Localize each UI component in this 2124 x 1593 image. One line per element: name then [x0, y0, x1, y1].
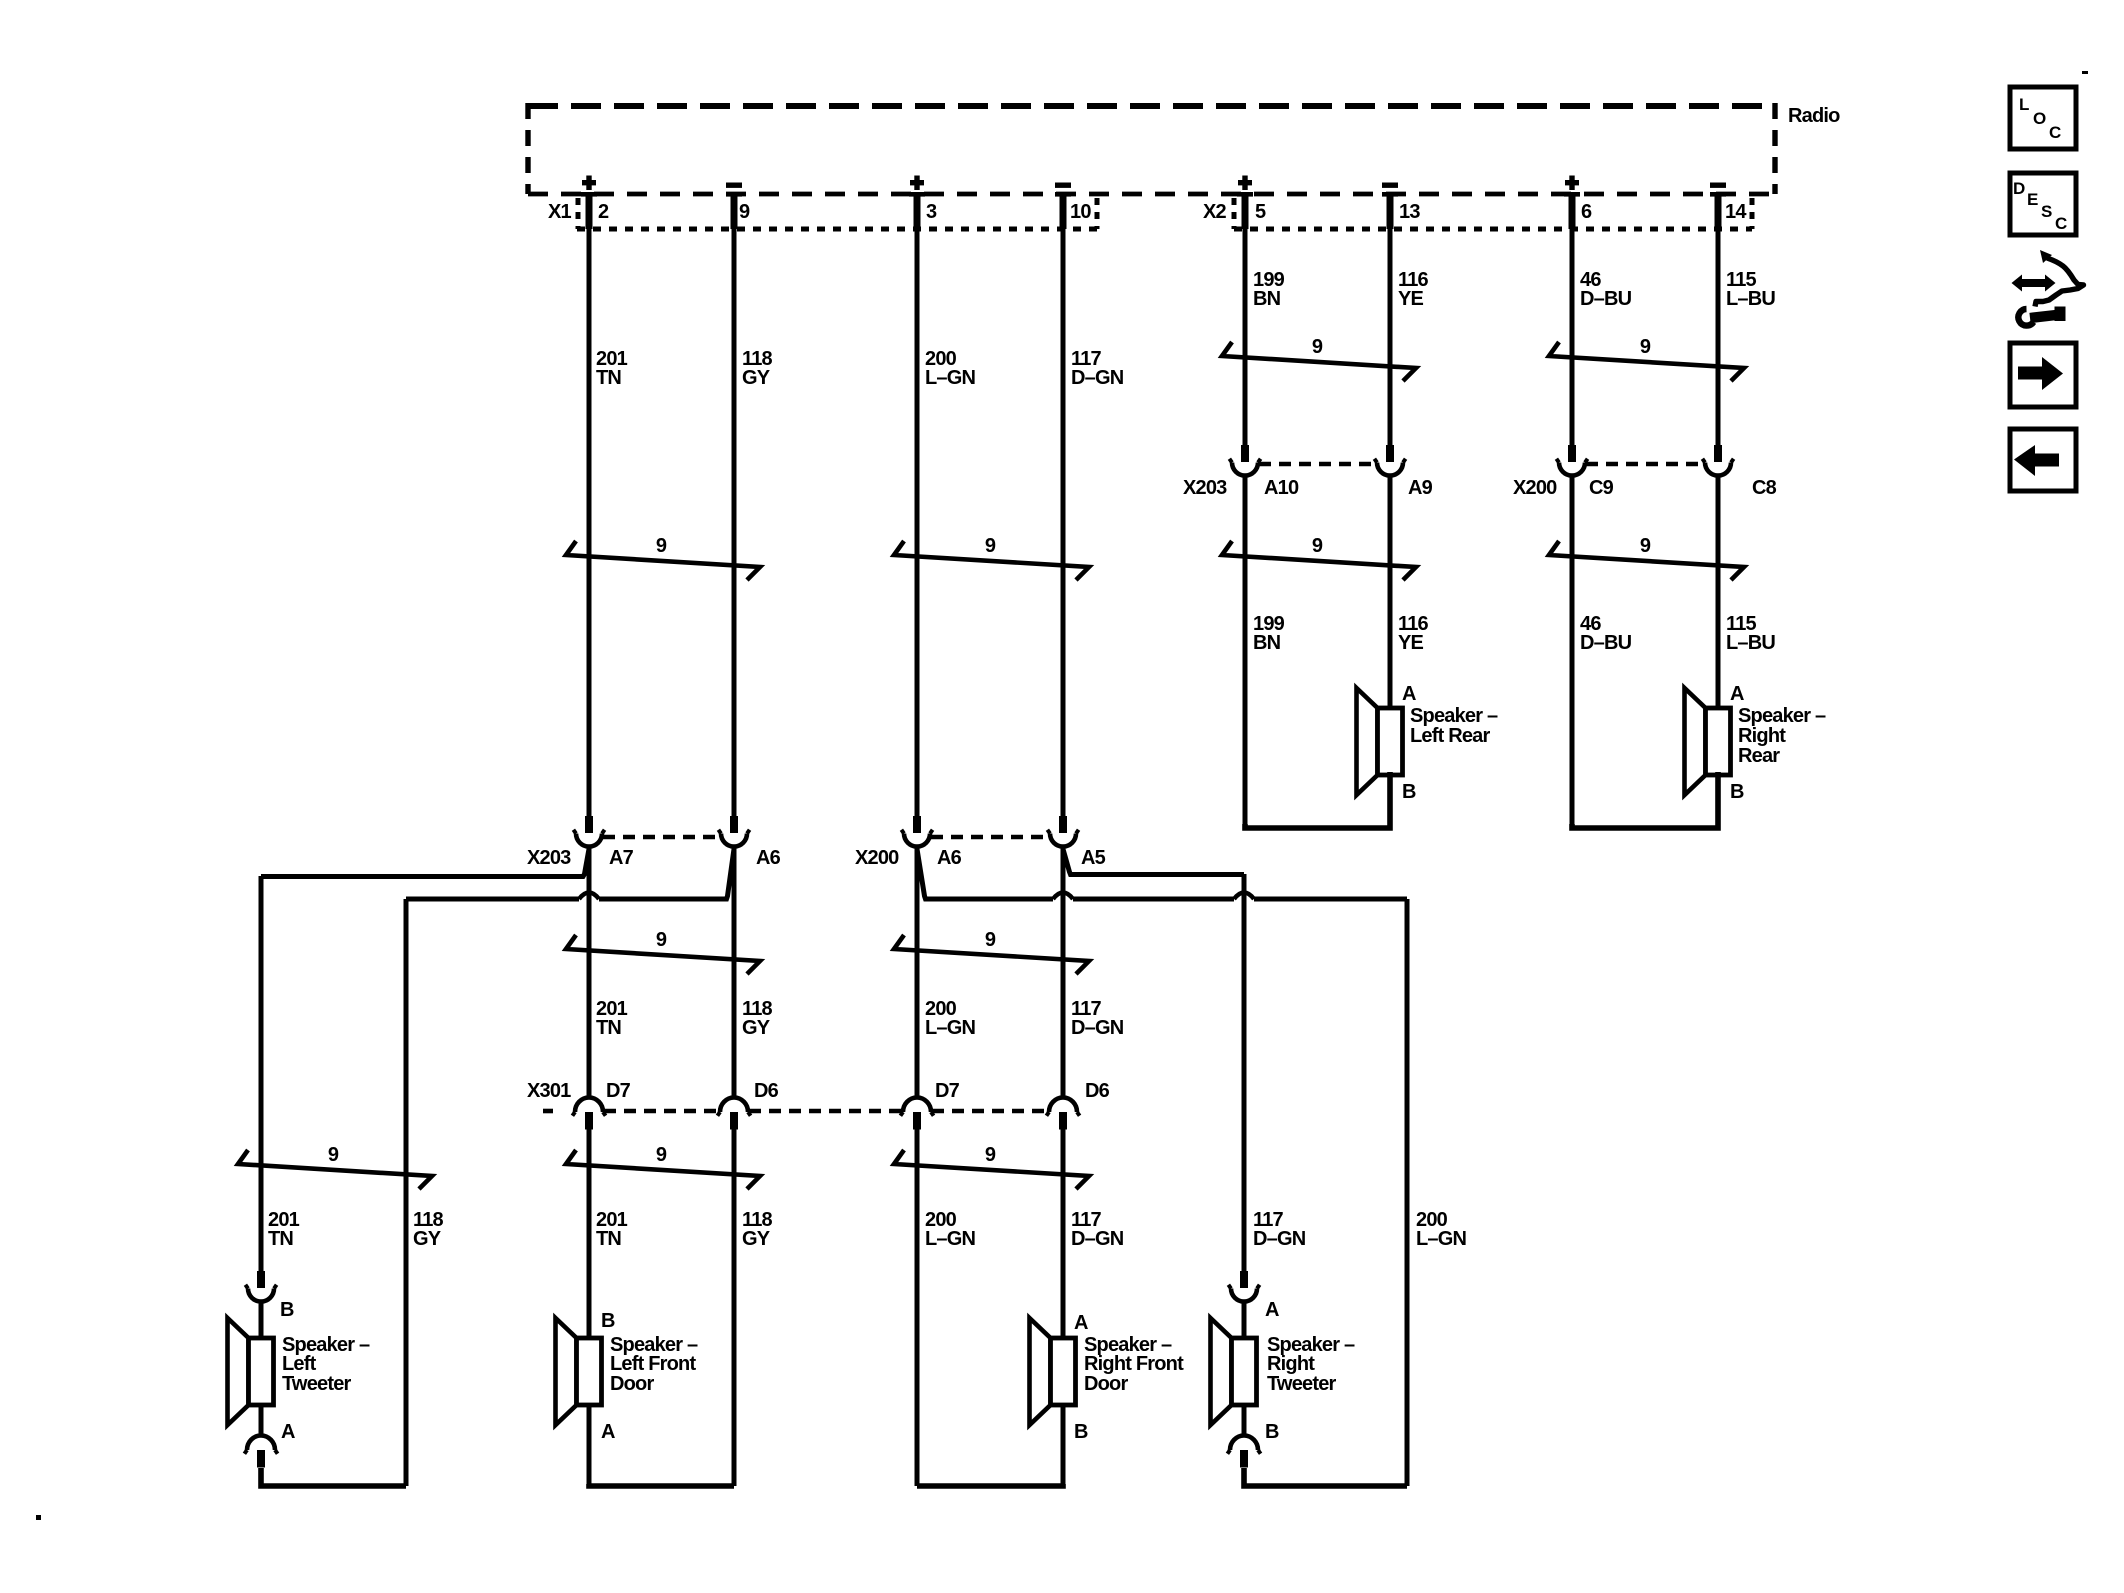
svg-text:D6: D6: [754, 1080, 779, 1102]
label X1: [548, 201, 572, 223]
wire label 115 L-BU (lower): [1726, 613, 1775, 654]
inline connector below right tweeter pin B: [1227, 1436, 1260, 1468]
svg-text:9: 9: [1312, 535, 1323, 557]
wire 117 D-GN col4 upper (pin 10 to X200 A5): [1061, 229, 1066, 816]
twisted pair marker 9 (cols 7-8 upper): [1549, 336, 1744, 381]
wire label 118 GY (upper): [742, 348, 773, 389]
label Speaker - Left Front Door: [610, 1334, 698, 1395]
wire left tweeter stub to box: [259, 1300, 264, 1338]
label A (right tweeter pin): [1265, 1299, 1279, 1321]
svg-text:9: 9: [1312, 336, 1323, 358]
wire 200 L-GN col3 lower: [915, 1129, 920, 1486]
svg-text:C: C: [2049, 123, 2061, 142]
svg-text:9: 9: [985, 1144, 996, 1166]
twisted pair marker 9 (cols 5-6 upper): [1222, 336, 1416, 381]
svg-text:L–GN: L–GN: [925, 1017, 975, 1039]
wire label 116 YE (lower): [1398, 613, 1429, 654]
wire label 118 GY left tweeter (bottom): [413, 1209, 444, 1250]
wire left tweeter return loop bottom: [261, 1468, 406, 1486]
radio module dashed box: [528, 103, 1775, 194]
svg-text:D–BU: D–BU: [1580, 288, 1632, 310]
svg-text:A6: A6: [756, 847, 781, 869]
connector X301 pin D7 right (inline socket): [900, 1098, 933, 1130]
svg-text:Speaker –: Speaker –: [1410, 705, 1498, 727]
svg-text:L: L: [2019, 95, 2029, 114]
label A (right front door pin): [1074, 1312, 1088, 1334]
svg-text:9: 9: [739, 201, 750, 223]
wire right tweeter stub to box: [1242, 1300, 1247, 1338]
svg-text:Left Rear: Left Rear: [1410, 725, 1491, 747]
svg-text:A10: A10: [1264, 477, 1299, 499]
radio pin 9 (minus): [726, 183, 750, 230]
svg-text:BN: BN: [1253, 632, 1281, 654]
svg-text:B: B: [280, 1299, 294, 1321]
svg-text:YE: YE: [1398, 632, 1424, 654]
label X301 D7 D6 D7 D6: [527, 1080, 1110, 1102]
svg-text:9: 9: [656, 1144, 667, 1166]
wire label 117 D-GN door (bottom): [1071, 1209, 1124, 1250]
radio pin 3 (plus): [909, 176, 937, 230]
connector X2 dotted strip: [1234, 198, 1752, 229]
svg-text:S: S: [2041, 202, 2052, 221]
svg-text:9: 9: [656, 535, 667, 557]
svg-text:X200: X200: [1513, 477, 1557, 499]
label Speaker - Right Tweeter: [1267, 1334, 1355, 1395]
twisted pair marker 9 (cols 7-8 mid): [1549, 535, 1744, 580]
svg-text:D: D: [2013, 179, 2025, 198]
svg-text:TN: TN: [596, 1228, 621, 1250]
svg-text:X203: X203: [1183, 477, 1227, 499]
connector X200 pin C8 (inline plug): [1702, 445, 1733, 476]
svg-text:A: A: [281, 1421, 295, 1443]
wire label 200 L-GN (upper): [925, 348, 975, 389]
connector X203 pin A6 (inline plug): [718, 816, 749, 847]
svg-text:B: B: [1265, 1421, 1279, 1443]
svg-text:Tweeter: Tweeter: [282, 1373, 352, 1395]
wire left tweeter box to connector: [259, 1405, 264, 1437]
label B (right tweeter pin): [1265, 1421, 1279, 1443]
svg-text:2: 2: [598, 201, 609, 223]
label B (left tweeter pin): [280, 1299, 294, 1321]
svg-text:A7: A7: [609, 847, 634, 869]
svg-text:BN: BN: [1253, 288, 1281, 310]
wire branch 117 D-GN to right tweeter (horizontal): [1063, 849, 1244, 875]
svg-text:9: 9: [985, 929, 996, 951]
label B (right rear speaker pin): [1730, 781, 1744, 803]
wire 46 D-BU col7 lower: [1570, 476, 1575, 825]
svg-text:Speaker –: Speaker –: [1738, 705, 1826, 727]
svg-text:9: 9: [1640, 336, 1651, 358]
svg-text:C8: C8: [1752, 477, 1777, 499]
svg-text:D6: D6: [1085, 1080, 1110, 1102]
wire 201 TN col1 mid: [587, 848, 592, 1097]
wire label 199 BN (lower): [1253, 613, 1285, 654]
svg-text:GY: GY: [742, 367, 771, 389]
svg-text:X203: X203: [527, 847, 571, 869]
label Speaker - Right Rear: [1738, 705, 1826, 767]
wire 200 L-GN col3 mid: [915, 848, 920, 1097]
label Speaker - Left Rear: [1410, 705, 1498, 747]
twisted pair marker 9 (cols 3-4 lower): [894, 1144, 1089, 1189]
svg-text:Tweeter: Tweeter: [1267, 1373, 1337, 1395]
wire label 199 BN (upper): [1253, 269, 1285, 310]
wire right tweeter return loop bottom: [1244, 1468, 1407, 1486]
svg-text:X301: X301: [527, 1080, 571, 1102]
wire label 117 D-GN right tweeter (bottom): [1253, 1209, 1306, 1250]
svg-text:A: A: [1265, 1299, 1279, 1321]
connector X200 pin A6 (inline plug): [901, 816, 932, 847]
icon box arrow left: [2010, 429, 2076, 491]
icon box DESC: [2010, 173, 2076, 235]
connector X203 pin A7 (inline plug): [573, 816, 604, 847]
twisted pair marker 9 (cols 1-2 mid): [566, 535, 760, 580]
label A (left rear speaker pin): [1402, 683, 1416, 705]
speaker Left Rear: [1357, 688, 1403, 795]
icon box LOC: [2010, 87, 2076, 149]
svg-text:L–BU: L–BU: [1726, 632, 1775, 654]
connector X203 pair A10-A9 dashed link: [1259, 462, 1376, 467]
wire branch 201 TN to left tweeter (horizontal): [261, 849, 589, 877]
wire 116 YE col6 lower: [1388, 476, 1393, 708]
wire 115 L-BU col8 upper (pin 14 to X200 C8): [1716, 229, 1721, 445]
svg-text:Right: Right: [1267, 1353, 1315, 1375]
svg-text:L–GN: L–GN: [925, 367, 975, 389]
wire 200 L-GN right tweeter return: [1405, 899, 1410, 1486]
svg-text:L–GN: L–GN: [925, 1228, 975, 1250]
wire 117 D-GN col4 lower: [1061, 1129, 1066, 1338]
radio pin 13 (minus): [1382, 183, 1420, 230]
radio pin 5 (plus): [1237, 176, 1266, 230]
svg-text:Right Front: Right Front: [1084, 1353, 1184, 1375]
svg-text:D–GN: D–GN: [1071, 1017, 1124, 1039]
svg-text:Door: Door: [610, 1373, 654, 1395]
connector X200 pair A6-A5 dashed link: [931, 835, 1049, 840]
inline connector above right tweeter pin A: [1228, 1271, 1259, 1302]
svg-text:D7: D7: [606, 1080, 631, 1102]
svg-text:B: B: [1402, 781, 1416, 803]
wire right front door return loop bottom: [917, 1484, 1063, 1486]
inline connector above left tweeter pin B: [245, 1271, 276, 1302]
connector X1 dotted strip: [577, 198, 1098, 229]
svg-text:O: O: [2033, 109, 2046, 128]
svg-text:5: 5: [1255, 201, 1266, 223]
label X2: [1203, 201, 1227, 223]
wire 199 BN col5 upper (pin 5 to X203 A10): [1243, 229, 1248, 445]
wire 118 GY left tweeter return: [404, 899, 409, 1486]
wire label 201 TN door (bottom): [596, 1209, 628, 1250]
wire 201 TN col1 upper (pin 2 to X203 A7): [587, 229, 592, 816]
twisted pair marker 9 (cols 3-4 mid): [894, 535, 1089, 580]
svg-text:X2: X2: [1203, 201, 1227, 223]
speaker Left Front Door: [556, 1318, 602, 1425]
wire 117 D-GN col4 mid: [1061, 848, 1066, 1097]
wire label 201 TN (upper): [596, 348, 628, 389]
svg-text:B: B: [1730, 781, 1744, 803]
wire 118 GY col2 upper (pin 9 to X203 A6): [732, 229, 737, 816]
label B (left rear speaker pin): [1402, 781, 1416, 803]
connector X203 pin A10 (inline plug): [1229, 445, 1260, 476]
label B (right front door pin): [1074, 1421, 1088, 1443]
svg-text:9: 9: [328, 1144, 339, 1166]
svg-text:D–BU: D–BU: [1580, 632, 1632, 654]
label B (left front door pin): [601, 1310, 615, 1332]
twisted pair marker 9 (cols 1-2 below X203): [566, 929, 760, 974]
wire label 200 L-GN (mid): [925, 998, 975, 1039]
speaker Left Tweeter: [228, 1318, 274, 1425]
connector X301 pin D6 right (inline socket): [1046, 1098, 1079, 1130]
svg-text:9: 9: [656, 929, 667, 951]
svg-text:3: 3: [926, 201, 937, 223]
svg-text:D–GN: D–GN: [1071, 1228, 1124, 1250]
svg-text:A: A: [1730, 683, 1744, 705]
wire label 115 L-BU (upper): [1726, 269, 1775, 310]
twisted pair marker 9 (cols 3-4 below X200): [894, 929, 1089, 974]
radio pin 10 (minus): [1055, 183, 1091, 230]
wire 199 BN col5 lower: [1243, 476, 1248, 825]
wire 200 L-GN col3 upper (pin 3 to X200 A6): [915, 229, 920, 816]
svg-text:D–GN: D–GN: [1071, 367, 1124, 389]
svg-text:9: 9: [1640, 535, 1651, 557]
wire 118 GY col2 mid: [732, 848, 737, 1097]
twisted pair marker 9 (cols 1-2 lower): [566, 1144, 760, 1189]
icon box arrow right: [2010, 343, 2076, 407]
wire label 200 L-GN right tweeter (bottom): [1416, 1209, 1466, 1250]
speaker Right Tweeter: [1211, 1318, 1257, 1425]
svg-text:Rear: Rear: [1738, 745, 1780, 767]
wire right rear speaker return loop: [1572, 772, 1718, 828]
label X200 A6 A5: [855, 847, 1106, 869]
wire 116 YE col6 upper (pin 13 to X203 A9): [1388, 229, 1393, 445]
wire 118 GY col2 lower: [732, 1129, 737, 1486]
svg-text:D–GN: D–GN: [1253, 1228, 1306, 1250]
wire 46 D-BU col7 upper (pin 6 to X200 C9): [1570, 229, 1575, 445]
svg-text:C: C: [2055, 214, 2067, 233]
svg-text:A6: A6: [937, 847, 962, 869]
label A (left front door pin): [601, 1421, 615, 1443]
wire left rear speaker return loop: [1245, 772, 1390, 828]
twisted pair marker 9 (left tweeter pair): [238, 1144, 432, 1189]
svg-text:Radio: Radio: [1788, 105, 1840, 127]
radio pin 2 (plus): [581, 176, 609, 230]
connector X301 dashed link: [543, 1109, 1048, 1114]
svg-text:B: B: [1074, 1421, 1088, 1443]
svg-text:A: A: [1402, 683, 1416, 705]
svg-text:TN: TN: [596, 367, 621, 389]
inline connector below left tweeter pin A: [244, 1436, 277, 1468]
wire branch 118 GY to left tweeter (horizontal with hop): [406, 849, 734, 899]
svg-text:D7: D7: [935, 1080, 960, 1102]
wire right front door speaker lower: [1061, 1405, 1066, 1486]
wire label 116 YE (upper): [1398, 269, 1429, 310]
svg-text:L–BU: L–BU: [1726, 288, 1775, 310]
radio pin 6 (plus): [1564, 176, 1592, 230]
svg-text:E: E: [2027, 190, 2038, 209]
svg-text:13: 13: [1399, 201, 1420, 223]
wire label 200 L-GN door (bottom): [925, 1209, 975, 1250]
wire label 46 D-BU (upper): [1580, 269, 1632, 310]
svg-text:L–GN: L–GN: [1416, 1228, 1466, 1250]
wire label 201 TN (mid): [596, 998, 628, 1039]
label Speaker - Right Front Door: [1084, 1334, 1184, 1395]
stray scan mark top right: [2082, 71, 2088, 74]
svg-text:X1: X1: [548, 201, 572, 223]
svg-text:A: A: [1074, 1312, 1088, 1334]
label X203 A7 A6: [527, 847, 781, 869]
label Speaker - Left Tweeter: [282, 1334, 370, 1395]
connector X200 pin C9 (inline plug): [1556, 445, 1587, 476]
label X200 C9 C8: [1513, 477, 1777, 499]
connector X203 pin A9 (inline plug): [1374, 445, 1405, 476]
svg-text:GY: GY: [742, 1017, 771, 1039]
wire 115 L-BU col8 lower: [1716, 476, 1721, 708]
svg-text:GY: GY: [742, 1228, 771, 1250]
icon shortcut arrows with wrench: [2012, 250, 2084, 326]
wire left front door speaker lower: [587, 1405, 592, 1486]
svg-text:TN: TN: [268, 1228, 293, 1250]
connector X203 pair A7-A6 dashed link: [603, 835, 720, 840]
svg-text:X200: X200: [855, 847, 899, 869]
connector X301 pin D6 left (inline socket): [717, 1098, 750, 1130]
svg-text:A5: A5: [1081, 847, 1106, 869]
label X203 A10 A9: [1183, 477, 1433, 499]
wire label 46 D-BU (lower): [1580, 613, 1632, 654]
svg-text:14: 14: [1725, 201, 1747, 223]
label Radio: [1788, 105, 1840, 127]
svg-text:YE: YE: [1398, 288, 1424, 310]
svg-text:10: 10: [1070, 201, 1091, 223]
wire label 118 GY (mid): [742, 998, 773, 1039]
wire left front door return loop bottom: [589, 1484, 734, 1486]
svg-text:B: B: [601, 1310, 615, 1332]
wire label 118 GY door (bottom): [742, 1209, 773, 1250]
connector X200 pin A5 (inline plug): [1047, 816, 1078, 847]
svg-text:C9: C9: [1589, 477, 1614, 499]
stray scan mark bottom left: [36, 1515, 41, 1520]
svg-text:Left: Left: [282, 1353, 317, 1375]
label A (right rear speaker pin): [1730, 683, 1744, 705]
label A (left tweeter pin): [281, 1421, 295, 1443]
twisted pair marker 9 (cols 5-6 mid): [1222, 535, 1416, 580]
svg-text:A9: A9: [1408, 477, 1433, 499]
radio pin 14 (minus): [1710, 183, 1747, 230]
svg-text:TN: TN: [596, 1017, 621, 1039]
svg-text:9: 9: [985, 535, 996, 557]
wire branch 200 L-GN to right tweeter (horizontal with hops): [917, 849, 1407, 899]
svg-text:GY: GY: [413, 1228, 442, 1250]
wire label 117 D-GN (upper): [1071, 348, 1124, 389]
svg-text:Right: Right: [1738, 725, 1786, 747]
wire 201 TN col1 lower: [587, 1129, 592, 1338]
wire label 201 TN left tweeter (bottom): [268, 1209, 300, 1250]
svg-text:6: 6: [1581, 201, 1592, 223]
wire right tweeter box to connector: [1242, 1405, 1247, 1437]
connector X301 pin D7 left (inline socket): [572, 1098, 605, 1130]
connector X200 pair C9-C8 dashed link: [1586, 462, 1704, 467]
svg-text:Left Front: Left Front: [610, 1353, 696, 1375]
speaker Right Rear: [1685, 688, 1731, 795]
speaker Right Front Door: [1030, 1318, 1076, 1425]
wire 201 TN left tweeter drop: [259, 876, 264, 1271]
wire 117 D-GN right tweeter drop: [1242, 874, 1247, 1271]
svg-text:Door: Door: [1084, 1373, 1128, 1395]
wire label 117 D-GN (mid): [1071, 998, 1124, 1039]
svg-text:A: A: [601, 1421, 615, 1443]
